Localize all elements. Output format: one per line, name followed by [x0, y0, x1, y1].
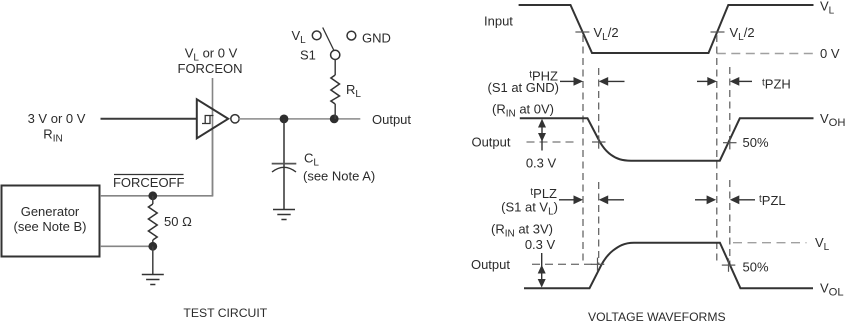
wire output [239, 118, 360, 120]
label 3 V or 0 V / RIN [28, 111, 86, 144]
svg-text:tPZH: tPZH [762, 77, 791, 92]
wire RIN input [101, 118, 197, 120]
svg-text:VOLTAGE WAVEFORMS: VOLTAGE WAVEFORMS [588, 310, 726, 322]
node tick upper rise crossing [723, 136, 737, 149]
node RL junction [330, 115, 339, 124]
wire control pass-through gate [212, 108, 214, 196]
arrow 0.3V lower double [538, 253, 546, 288]
arrow tPHZ left [599, 77, 625, 86]
svg-text:(S1 at GND): (S1 at GND) [487, 80, 559, 95]
arrow tPHZ right [560, 77, 583, 86]
svg-text:Generator: Generator [21, 204, 80, 219]
label FORCEOFF (overlined) [113, 175, 185, 191]
arrow tPLZ left [599, 195, 624, 204]
svg-text:S1: S1 [300, 48, 316, 63]
svg-text:0.3 V: 0.3 V [525, 237, 556, 252]
svg-text:50%: 50% [743, 135, 769, 150]
wire output waveform lower [524, 243, 813, 289]
svg-text:GND: GND [362, 31, 391, 46]
wire generator bottom output [100, 245, 153, 247]
node VL/2 tick right [711, 31, 725, 33]
wire 0.3V reference dashed lower [532, 263, 592, 265]
svg-text:tPZL: tPZL [759, 193, 786, 208]
wire dashed vertical B lower [729, 180, 731, 265]
svg-text:0.3 V: 0.3 V [526, 156, 557, 171]
wire VL reference dashed (lower) [733, 242, 807, 244]
node tick lower rise crossing [591, 258, 605, 271]
arrow tPZL right [695, 195, 716, 204]
svg-text:Output: Output [471, 257, 510, 272]
capacitor CL [272, 119, 297, 210]
wire dashed vertical L1 [582, 35, 584, 264]
wire 0 V reference dashed [717, 53, 814, 55]
contact VL [312, 31, 321, 40]
node VL/2 tick left [575, 31, 589, 33]
wire FORCEON vertical [212, 78, 214, 110]
blade [323, 28, 334, 51]
ground (below 50 ohm) [142, 275, 164, 285]
svg-text:Output: Output [471, 135, 510, 150]
wire dashed vertical B upper [729, 67, 731, 143]
svg-text:50 Ω: 50 Ω [164, 214, 192, 229]
svg-text:Output: Output [372, 112, 411, 127]
bubble [231, 115, 239, 123]
node bottom junction [148, 242, 157, 251]
svg-text:Input: Input [484, 14, 513, 29]
svg-text:TEST CIRCUIT: TEST CIRCUIT [183, 306, 267, 320]
arrow tPZL left [730, 195, 755, 204]
node tick lower fall crossing [722, 258, 736, 271]
resistor 50 ohm [148, 196, 157, 247]
arrow 0.3V upper double [538, 119, 546, 151]
contact GND [347, 31, 356, 40]
wire input waveform [519, 5, 814, 53]
svg-text:FORCEOFF: FORCEOFF [113, 175, 185, 190]
wire 0.3V reference dashed upper [527, 141, 579, 143]
pole [331, 50, 340, 59]
svg-text:(see Note A): (see Note A) [303, 169, 375, 184]
svg-text:50%: 50% [743, 259, 769, 274]
wire dashed vertical L2 upper [598, 68, 600, 139]
svg-text:3 V or 0 V: 3 V or 0 V [28, 111, 86, 126]
arrow tPZH left [730, 77, 752, 86]
node FORCEOFF junction [148, 191, 157, 200]
svg-text:0 V: 0 V [820, 46, 840, 61]
arrow tPZH right [697, 77, 717, 86]
generator box [2, 186, 100, 257]
wire dashed vertical L2 lower [598, 182, 600, 264]
node tick upper fall crossing [592, 135, 606, 148]
wire generator top output to FORCEOFF run [100, 130, 213, 196]
wire output waveform upper [520, 118, 814, 160]
op-amp buffer U1 (3-state driver triangle) [197, 99, 239, 138]
wire to ground [152, 246, 154, 274]
svg-text:(see Note B): (see Note B) [14, 219, 87, 234]
node CL junction [280, 115, 289, 124]
wire dashed vertical A [716, 35, 718, 264]
switch S1 [312, 28, 355, 60]
ground (below CL) [273, 210, 295, 220]
resistor RL [331, 60, 340, 119]
hysteresis symbol [202, 116, 210, 124]
svg-text:FORCEON: FORCEON [178, 61, 243, 76]
arrow tPLZ right [559, 195, 583, 204]
